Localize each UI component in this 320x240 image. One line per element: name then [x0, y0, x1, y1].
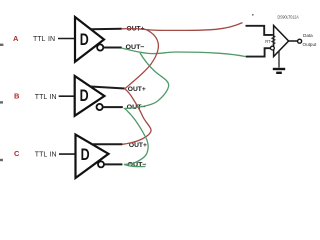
svg-text:Data: Data [303, 33, 313, 38]
svg-text:D: D [80, 87, 89, 105]
svg-text:RT: RT [265, 39, 271, 44]
svg-text:TTL: TTL [35, 94, 48, 101]
svg-text:DS90LT012A: DS90LT012A [278, 14, 299, 19]
svg-text:OUT−: OUT− [128, 162, 147, 169]
svg-text:D: D [81, 146, 90, 164]
svg-text:B: B [14, 91, 20, 100]
svg-text:IN: IN [50, 94, 57, 101]
svg-text:TTL: TTL [33, 36, 46, 43]
svg-text:TTL: TTL [35, 151, 48, 158]
svg-text:OUT+: OUT+ [128, 86, 146, 93]
svg-text:C: C [14, 149, 20, 158]
svg-text:A: A [13, 34, 19, 43]
svg-text:D: D [80, 31, 89, 49]
svg-text:IN: IN [48, 36, 55, 43]
svg-text:IN: IN [50, 151, 57, 158]
svg-text:Output: Output [303, 42, 318, 47]
